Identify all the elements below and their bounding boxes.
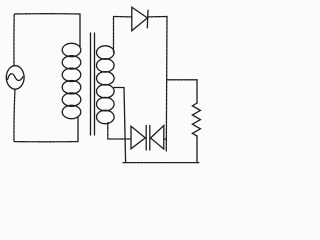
wire secondary top lead [114,17,132,53]
resistor R1 [192,103,200,136]
wire primary return [77,117,79,142]
wire top-left loop [14,14,80,66]
node branch to load [167,79,197,81]
wire primary feed [79,14,81,47]
diode D3 [150,126,164,151]
wire D1 to right corner [148,16,167,18]
diode D2 [131,126,146,151]
transformer core [91,33,95,135]
center tap lead [114,88,126,163]
wire resistor bottom lead [196,136,198,163]
wire secondary bottom lead [108,123,131,140]
transformer T1 secondary winding [97,46,115,124]
wire bottom rail [123,162,200,164]
diode D1 [132,7,148,31]
wire D3 to cathode node [164,138,167,140]
transformer T1 primary winding [62,43,81,118]
wire left-bottom [14,89,78,142]
ac source V1 [6,66,24,89]
wire resistor top lead [196,80,198,103]
wire right vertical (cathode node) [165,17,168,152]
